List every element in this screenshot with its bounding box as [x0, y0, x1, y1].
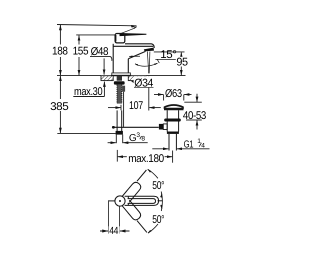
svg-text:15°: 15°: [160, 49, 176, 61]
svg-text:385: 385: [50, 101, 68, 113]
svg-text:95: 95: [176, 56, 187, 68]
svg-text:50°: 50°: [152, 214, 164, 226]
svg-text:8: 8: [141, 136, 145, 143]
svg-text:188: 188: [52, 46, 68, 58]
svg-text:107: 107: [129, 100, 143, 112]
svg-text:Ø34: Ø34: [134, 77, 153, 89]
svg-text:50°: 50°: [152, 180, 164, 192]
svg-text:4: 4: [201, 142, 205, 149]
svg-text:3: 3: [136, 132, 140, 139]
svg-text:Ø48: Ø48: [91, 46, 109, 58]
svg-text:155: 155: [73, 46, 89, 58]
svg-text:max.30: max.30: [74, 86, 102, 98]
svg-text:40-53: 40-53: [183, 110, 206, 122]
svg-text:G1: G1: [184, 139, 194, 150]
svg-text:44: 44: [109, 226, 118, 237]
svg-text:Ø63: Ø63: [165, 88, 182, 100]
svg-text:max.180: max.180: [128, 153, 164, 165]
